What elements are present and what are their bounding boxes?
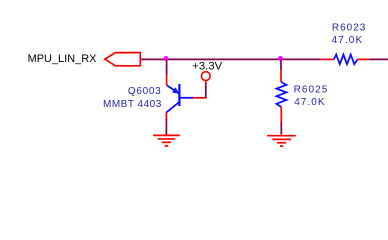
wire main net to right edge bbox=[370, 58, 388, 60]
power symbol +3.3V bbox=[201, 72, 210, 84]
svg-text:R6025: R6025 bbox=[294, 85, 329, 96]
svg-text:47.0K: 47.0K bbox=[332, 35, 364, 46]
pin R6023 right bbox=[358, 58, 370, 60]
ground under Q6003 bbox=[153, 135, 180, 145]
pin Q6003 emitter bbox=[166, 75, 168, 85]
wire emitter branch bbox=[166, 59, 168, 75]
pin Q6003 base bbox=[193, 97, 207, 99]
pin Q6003 collector bbox=[165, 112, 167, 119]
wire collector to ground bbox=[165, 119, 167, 135]
ground under R6025 bbox=[267, 136, 296, 146]
svg-text:MMBT 4403: MMBT 4403 bbox=[103, 99, 162, 110]
svg-text:+3.3V: +3.3V bbox=[192, 61, 222, 73]
svg-text:47.0K: 47.0K bbox=[294, 97, 325, 108]
junction at R6025 branch bbox=[278, 56, 283, 61]
junction at emitter branch bbox=[163, 56, 168, 61]
pin R6025 top bbox=[280, 70, 282, 82]
svg-text:Q6003: Q6003 bbox=[128, 86, 162, 97]
wire base to +3.3V bbox=[205, 83, 207, 98]
wire R6025 to ground bbox=[280, 122, 282, 135]
resistor R6023 bbox=[334, 55, 358, 65]
svg-text:R6023: R6023 bbox=[332, 23, 366, 34]
svg-text:MPU_LIN_RX: MPU_LIN_RX bbox=[28, 53, 98, 65]
port MPU_LIN_RX bbox=[105, 53, 141, 66]
resistor R6025 bbox=[276, 82, 286, 107]
wire R6025 branch bbox=[280, 59, 282, 70]
wire main net (port to R6023) bbox=[141, 58, 320, 60]
transistor Q6003 bbox=[167, 84, 194, 112]
pin R6023 left bbox=[320, 58, 333, 60]
pin R6025 bottom bbox=[280, 107, 282, 122]
